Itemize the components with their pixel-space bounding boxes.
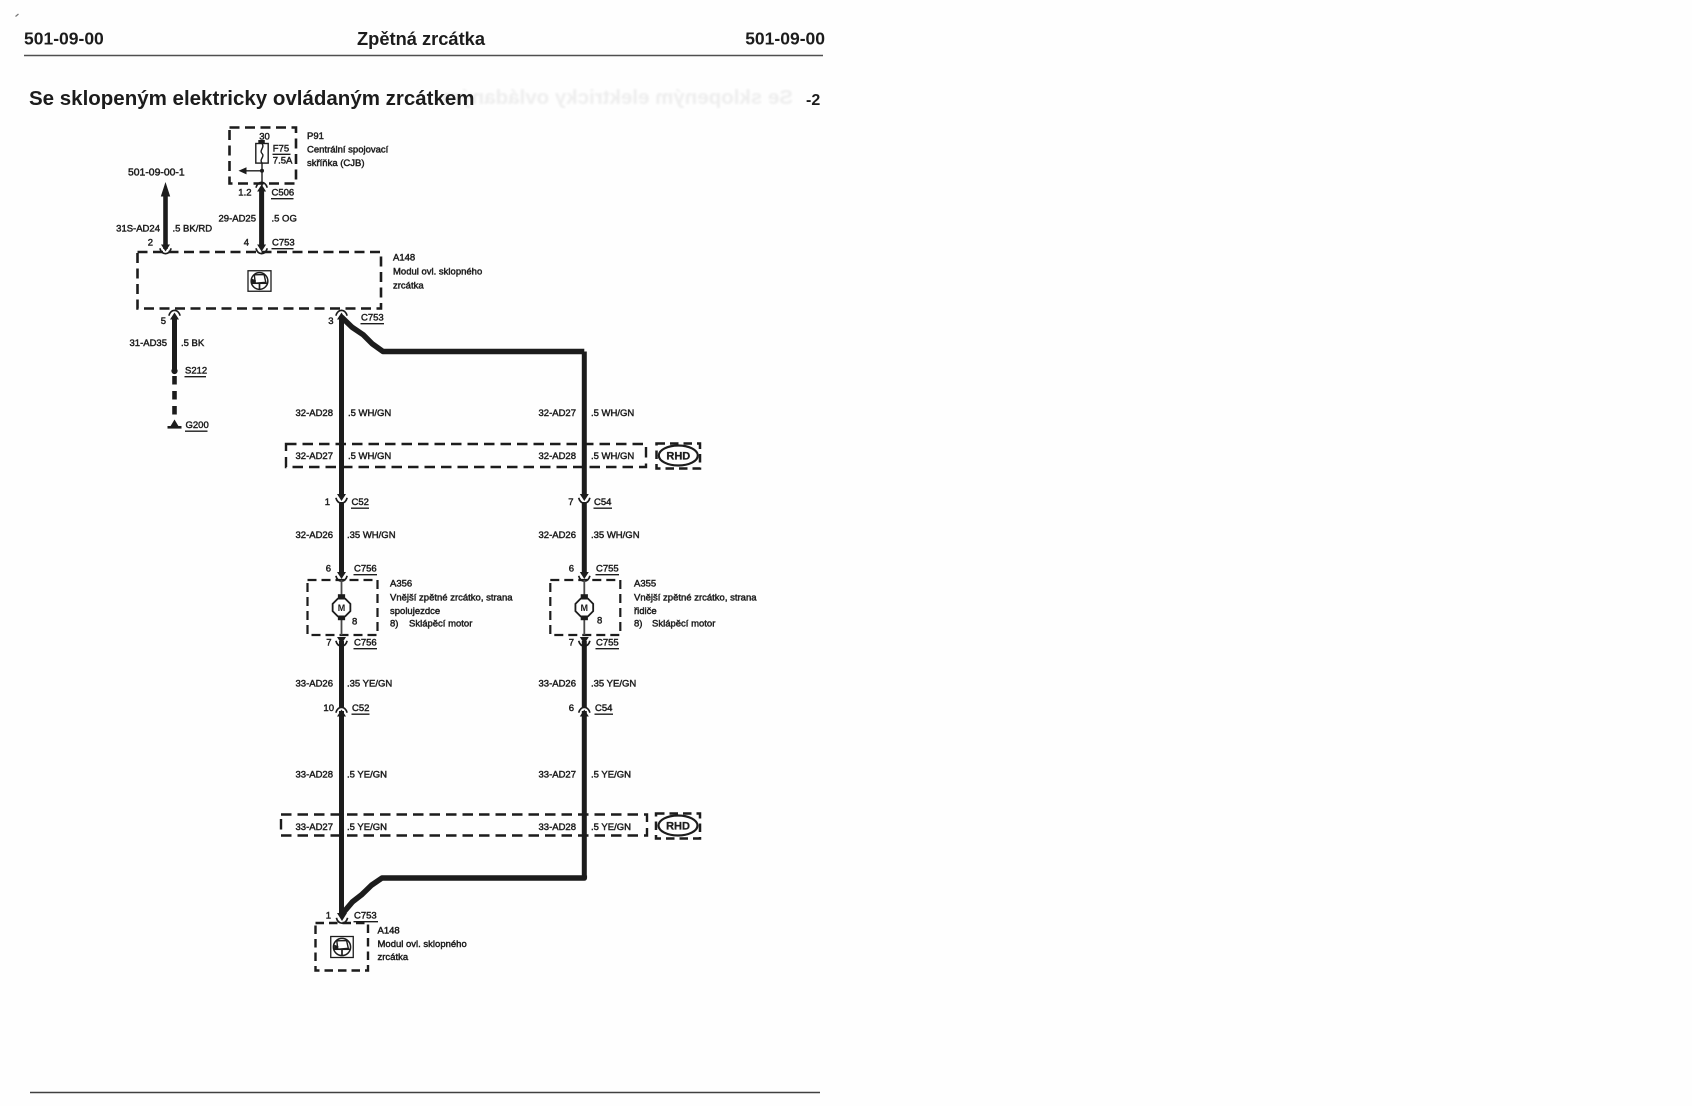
svg-text:8: 8 — [597, 616, 602, 627]
svg-text:S212: S212 — [185, 366, 207, 377]
svg-text:6: 6 — [569, 703, 574, 714]
svg-text:spolujezdce: spolujezdce — [390, 606, 440, 617]
svg-text:Se sklopeným elektricky ovláda: Se sklopeným elektricky ovládaným zrcátk… — [29, 87, 475, 110]
svg-text:skříňka (CJB): skříňka (CJB) — [307, 158, 365, 169]
svg-text:32-AD28: 32-AD28 — [296, 408, 334, 419]
svg-text:C52: C52 — [352, 703, 369, 714]
svg-text:RHD: RHD — [666, 451, 690, 463]
svg-text:.5 WH/GN: .5 WH/GN — [591, 451, 634, 462]
svg-text:8): 8) — [634, 619, 642, 630]
svg-text:C52: C52 — [352, 497, 369, 508]
svg-text:7: 7 — [326, 638, 331, 649]
svg-text:A355: A355 — [634, 579, 656, 590]
svg-text:zrcátka: zrcátka — [378, 952, 409, 963]
svg-text:.5 WH/GN: .5 WH/GN — [348, 451, 391, 462]
svg-text:zrcátka: zrcátka — [393, 281, 424, 292]
svg-text:G200: G200 — [186, 420, 209, 431]
svg-text:4: 4 — [244, 238, 249, 249]
svg-text:.5 OG: .5 OG — [272, 214, 297, 225]
svg-text:5: 5 — [161, 316, 166, 327]
svg-text:Modul ovl. sklopného: Modul ovl. sklopného — [393, 267, 482, 278]
svg-text:.5 WH/GN: .5 WH/GN — [591, 408, 634, 419]
svg-text:A148: A148 — [378, 926, 400, 937]
svg-text:-2: -2 — [806, 92, 820, 109]
svg-text:.5 YE/GN: .5 YE/GN — [591, 822, 631, 833]
svg-text:1: 1 — [325, 497, 330, 508]
svg-text:7.5A: 7.5A — [273, 156, 293, 167]
svg-text:Zpětná zrcátka: Zpětná zrcátka — [357, 28, 486, 49]
svg-text:řidiče: řidiče — [634, 606, 657, 617]
svg-text:F75: F75 — [273, 144, 289, 155]
svg-text:C755: C755 — [596, 638, 619, 649]
svg-text:32-AD28: 32-AD28 — [539, 451, 577, 462]
svg-text:Sklápěcí motor: Sklápěcí motor — [409, 619, 472, 630]
svg-text:.35 YE/GN: .35 YE/GN — [347, 679, 392, 690]
svg-text:Vnější zpětné zrcátko, strana: Vnější zpětné zrcátko, strana — [390, 593, 513, 604]
svg-text:31S-AD24: 31S-AD24 — [116, 224, 160, 235]
svg-text:.35 YE/GN: .35 YE/GN — [591, 679, 636, 690]
svg-text:C755: C755 — [596, 564, 619, 575]
svg-text:Vnější zpětné zrcátko, strana: Vnější zpětné zrcátko, strana — [634, 593, 757, 604]
svg-text:C756: C756 — [354, 638, 377, 649]
svg-text:33-AD28: 33-AD28 — [539, 822, 577, 833]
svg-text:1: 1 — [326, 911, 331, 922]
svg-text:M: M — [338, 603, 346, 613]
svg-text:8): 8) — [390, 619, 398, 630]
svg-text:RHD: RHD — [666, 821, 690, 833]
svg-text:.5 BK/RD: .5 BK/RD — [173, 224, 213, 235]
svg-text:Centrální spojovací: Centrální spojovací — [307, 145, 389, 156]
svg-text:32-AD27: 32-AD27 — [296, 451, 334, 462]
svg-text:.5 YE/GN: .5 YE/GN — [347, 770, 387, 781]
svg-text:6: 6 — [569, 564, 574, 575]
svg-text:C54: C54 — [594, 497, 611, 508]
svg-text:P91: P91 — [307, 131, 324, 142]
svg-text:2: 2 — [148, 238, 153, 249]
svg-text:A356: A356 — [390, 579, 412, 590]
svg-text:8: 8 — [352, 617, 357, 628]
svg-text:A148: A148 — [393, 253, 415, 264]
svg-text:33-AD27: 33-AD27 — [296, 822, 334, 833]
svg-text:1.2: 1.2 — [238, 188, 251, 199]
svg-text:M: M — [581, 603, 589, 613]
svg-text:C753: C753 — [354, 911, 377, 922]
svg-text:501-09-00: 501-09-00 — [24, 29, 104, 49]
svg-text:6: 6 — [326, 564, 331, 575]
svg-text:C756: C756 — [354, 564, 377, 575]
svg-text:31-AD35: 31-AD35 — [130, 338, 168, 349]
svg-text:32-AD26: 32-AD26 — [539, 530, 577, 541]
svg-text:33-AD27: 33-AD27 — [539, 770, 577, 781]
svg-text:C54: C54 — [595, 703, 612, 714]
svg-text:C753: C753 — [361, 313, 384, 324]
svg-text:.35 WH/GN: .35 WH/GN — [347, 530, 396, 541]
svg-text:3: 3 — [328, 316, 333, 327]
svg-text:29-AD25: 29-AD25 — [219, 214, 257, 225]
svg-text:C506: C506 — [272, 188, 295, 199]
svg-text:501-09-00-1: 501-09-00-1 — [128, 168, 185, 179]
svg-text:7: 7 — [568, 497, 573, 508]
svg-text:32-AD26: 32-AD26 — [296, 530, 334, 541]
svg-text:7: 7 — [569, 638, 574, 649]
svg-text:.5 WH/GN: .5 WH/GN — [348, 408, 391, 419]
svg-text:32-AD27: 32-AD27 — [539, 408, 577, 419]
svg-text:33-AD26: 33-AD26 — [539, 679, 577, 690]
svg-text:Sklápěcí motor: Sklápěcí motor — [652, 619, 715, 630]
svg-text:Se sklopeným elektricky ovláda: Se sklopeným elektricky ovládaným — [442, 86, 793, 109]
svg-text:33-AD28: 33-AD28 — [296, 770, 334, 781]
svg-text:C753: C753 — [272, 238, 295, 249]
svg-text:.5 YE/GN: .5 YE/GN — [347, 822, 387, 833]
svg-text:Modul ovl. sklopného: Modul ovl. sklopného — [378, 939, 467, 950]
svg-text:501-09-00: 501-09-00 — [745, 29, 825, 49]
svg-text:33-AD26: 33-AD26 — [296, 679, 334, 690]
svg-text:.35 WH/GN: .35 WH/GN — [591, 530, 640, 541]
svg-text:.5 BK: .5 BK — [181, 338, 205, 349]
svg-text:10: 10 — [323, 703, 334, 714]
svg-text:.5 YE/GN: .5 YE/GN — [591, 770, 631, 781]
